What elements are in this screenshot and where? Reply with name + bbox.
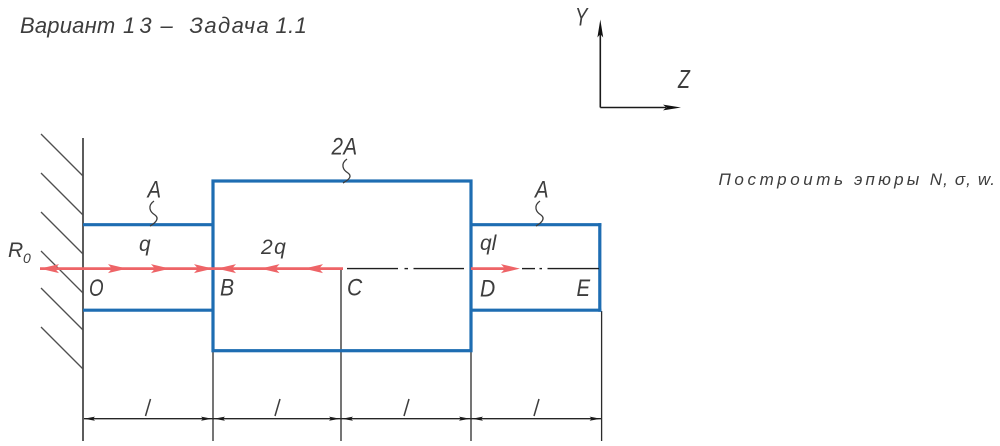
dimension arrowheads [84,417,601,421]
load axis line (red) O to C [40,267,343,270]
svg-text:ql: ql [480,232,498,255]
extension line C [340,270,342,442]
wall hatching [41,134,83,369]
svg-text:A: A [533,176,548,203]
distributed load q arrowheads (right) [108,264,127,273]
svg-text:B: B [220,274,234,301]
svg-text:Y: Y [575,3,589,31]
svg-text:0: 0 [23,250,31,266]
svg-text:2A: 2A [331,133,358,160]
svg-text:q: q [139,233,151,256]
reaction R0 arrowhead (left) [40,264,59,273]
dimension label l (C-D) [404,399,409,416]
dimension label l (O-B) [146,399,151,416]
dimension label l (D-E) [534,399,539,416]
dimension line [84,418,601,420]
bar segment DE (area A) [470,223,602,312]
extension line B [212,352,214,441]
svg-text:ПостроитьэпюрыN, σ, w.: ПостроитьэпюрыN, σ, w. [719,170,997,189]
force ql line at D [471,267,505,270]
wall line [82,138,84,441]
svg-text:2q: 2q [260,236,287,259]
dimension label l (B-C) [275,399,280,416]
centerline dash-dot C to D [347,268,464,270]
distributed load 2q arrowheads (left) [217,264,236,273]
centerline dash-dot D to E [522,268,599,270]
coordinate axis origin [600,34,666,108]
bar segment OB (area A) [83,225,215,311]
svg-text:Z: Z [677,64,691,93]
svg-text:D: D [480,275,495,302]
svg-text:Вариант13–Задача1.1: Вариант13–Задача1.1 [20,13,307,38]
extension line E [601,311,603,441]
force ql arrowhead [501,264,520,273]
svg-text:R: R [8,239,23,262]
bar segment BD (area 2A) [213,181,471,351]
svg-text:E: E [577,274,592,301]
axis Z arrowhead [663,105,681,111]
svg-text:A: A [146,176,161,203]
axis Y line [599,34,601,108]
svg-text:O: O [89,275,104,302]
axis Z line [600,107,666,109]
svg-text:C: C [347,274,363,301]
extension line D [470,352,472,441]
axis Y arrowhead [597,20,603,38]
